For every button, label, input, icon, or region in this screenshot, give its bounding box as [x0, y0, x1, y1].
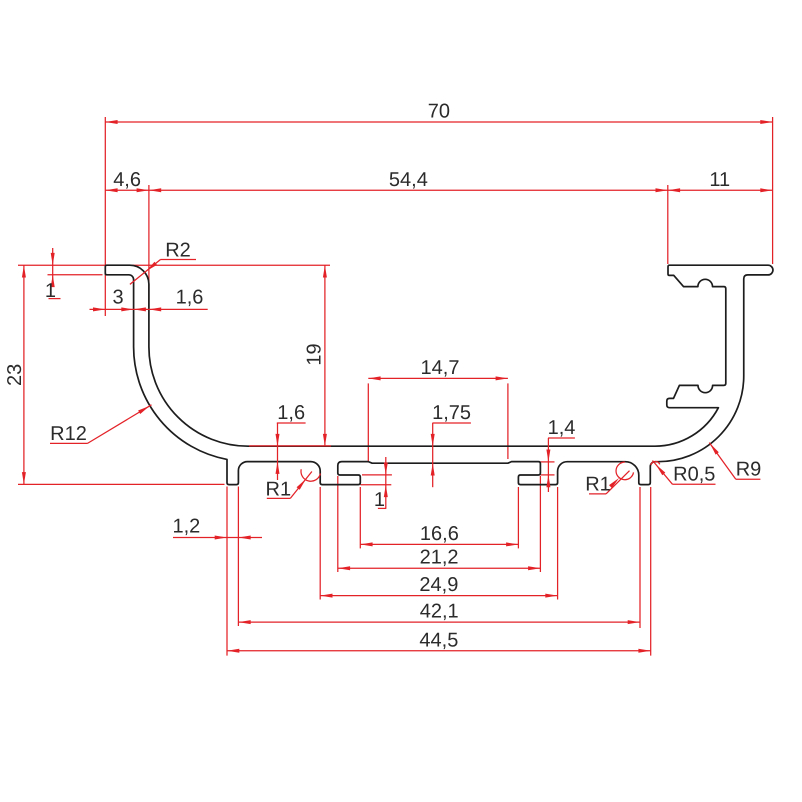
svg-text:1,6: 1,6: [176, 287, 204, 309]
svg-text:11: 11: [709, 169, 730, 191]
svg-text:1: 1: [45, 280, 56, 302]
svg-text:42,1: 42,1: [420, 601, 459, 623]
svg-text:1,6: 1,6: [277, 402, 305, 424]
svg-text:70: 70: [428, 101, 450, 123]
svg-text:R2: R2: [165, 240, 191, 262]
svg-text:4,6: 4,6: [113, 169, 141, 191]
svg-text:1,2: 1,2: [172, 516, 200, 538]
svg-text:54,4: 54,4: [389, 169, 428, 191]
svg-text:19: 19: [303, 343, 325, 365]
svg-text:R12: R12: [50, 423, 87, 445]
svg-text:44,5: 44,5: [419, 629, 458, 651]
svg-text:R0,5: R0,5: [673, 463, 715, 485]
svg-text:16,6: 16,6: [420, 523, 459, 545]
svg-text:21,2: 21,2: [420, 547, 459, 569]
svg-text:3: 3: [112, 287, 123, 309]
svg-text:24,9: 24,9: [419, 574, 458, 596]
svg-text:R1: R1: [585, 474, 611, 496]
svg-text:R9: R9: [736, 458, 762, 480]
svg-text:14,7: 14,7: [421, 357, 460, 379]
svg-text:1,4: 1,4: [548, 417, 576, 439]
svg-text:R1: R1: [266, 478, 292, 500]
svg-text:1: 1: [374, 489, 385, 511]
svg-text:23: 23: [4, 364, 26, 386]
svg-text:1,75: 1,75: [432, 402, 471, 424]
